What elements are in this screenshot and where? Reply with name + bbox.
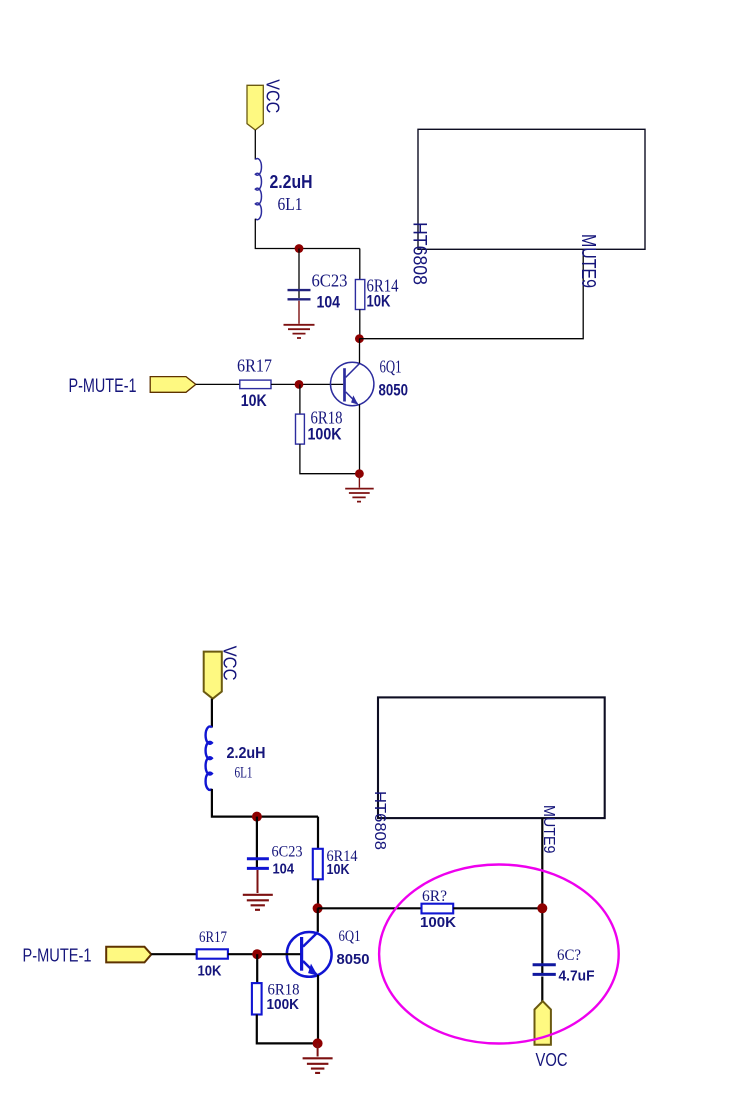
wire base node down to 6R18 xyxy=(256,954,258,983)
wire inductor to corner and across to 6R14 xyxy=(255,219,359,249)
IC HT6808 (box) xyxy=(378,697,605,818)
svg-text:MUTE9: MUTE9 xyxy=(577,234,599,288)
svg-text:6R18: 6R18 xyxy=(311,408,343,428)
svg-text:6R17: 6R17 xyxy=(237,356,272,376)
resistor 6R? xyxy=(422,904,454,914)
svg-text:10K: 10K xyxy=(327,861,350,878)
inductor 6L1 2.2uH xyxy=(206,726,212,789)
svg-text:2.2uH: 2.2uH xyxy=(270,172,313,192)
svg-text:6R17: 6R17 xyxy=(199,929,227,946)
wire node to ground (maroon) xyxy=(317,1043,319,1056)
wire MUTE9 pin down to cap xyxy=(541,818,543,973)
junction node (base) xyxy=(252,949,262,959)
svg-text:4.7uF: 4.7uF xyxy=(559,968,595,985)
svg-text:6R?: 6R? xyxy=(422,888,447,905)
svg-text:8050: 8050 xyxy=(379,382,409,400)
svg-text:6Q1: 6Q1 xyxy=(339,928,361,945)
IC HT6808 (box) xyxy=(418,129,645,249)
svg-text:6L1: 6L1 xyxy=(278,194,303,214)
ground (below 6Q1) xyxy=(303,1058,333,1073)
wire inductor to rail xyxy=(212,789,318,817)
svg-text:10K: 10K xyxy=(367,293,391,311)
capacitor 6C23 104 xyxy=(247,859,269,869)
transistor 6Q1 emitter arrow xyxy=(351,395,358,404)
junction node (emitter / ground) xyxy=(355,469,364,478)
wire collector up to node xyxy=(359,339,361,364)
junction node (rail / cap) xyxy=(252,812,262,822)
wire VCC flag to inductor xyxy=(254,130,256,160)
junction node (emitter / ground) xyxy=(313,1038,323,1048)
svg-text:100K: 100K xyxy=(267,996,300,1013)
resistor 6R14 xyxy=(355,280,364,310)
wire 6R? to MUTE9 node xyxy=(453,907,542,909)
svg-text:100K: 100K xyxy=(308,426,342,444)
svg-text:10K: 10K xyxy=(241,392,267,410)
svg-text:8050: 8050 xyxy=(337,951,370,968)
wire 6R18 to emitter node xyxy=(300,444,360,474)
wire 6R17 to base node xyxy=(228,953,300,955)
wire VCC flag to inductor xyxy=(211,699,213,728)
junction node (collector / 6R?) xyxy=(313,903,323,913)
svg-text:6C?: 6C? xyxy=(557,947,581,964)
capacitor 6C23 104 xyxy=(288,290,311,299)
transistor 6Q1 emitter arrow xyxy=(308,964,318,976)
wire flag to 6R17 xyxy=(151,953,196,955)
wire 6R14 to collector node xyxy=(359,310,361,339)
transistor 6Q1 base bar xyxy=(343,368,346,401)
junction node (MUTE9 / cap) xyxy=(537,903,547,913)
wire 6R18 to emitter node xyxy=(257,1015,318,1044)
power flag VCC (top circuit) xyxy=(247,85,263,130)
svg-text:6L1: 6L1 xyxy=(235,765,253,782)
junction node (VCC rail / cap) xyxy=(295,244,304,253)
capacitor 6C? 4.7uF xyxy=(533,965,556,975)
svg-text:VOC: VOC xyxy=(536,1050,568,1070)
ground (below 6C23) xyxy=(284,325,315,338)
transistor 6Q1 collector stroke xyxy=(346,363,360,377)
wire 6R14 to collector node xyxy=(317,879,319,908)
svg-text:HT6808: HT6808 xyxy=(409,222,430,285)
junction node (collector / MUTE9) xyxy=(355,334,364,343)
wire capacitor to ground (maroon) xyxy=(257,870,259,893)
svg-text:100K: 100K xyxy=(420,914,456,931)
wire base node down to 6R18 xyxy=(299,384,301,414)
ground (below 6C23) xyxy=(243,895,273,910)
wire node to ground (maroon) xyxy=(358,474,360,488)
resistor 6R17 xyxy=(197,949,228,958)
svg-text:VCC: VCC xyxy=(219,646,240,681)
resistor 6R14 xyxy=(313,849,323,880)
svg-text:104: 104 xyxy=(273,861,295,878)
transistor 6Q1 emitter stroke xyxy=(346,392,358,404)
resistor 6R18 xyxy=(252,983,262,1014)
svg-text:HT6808: HT6808 xyxy=(371,791,388,850)
transistor 6Q1 emitter stroke xyxy=(303,961,317,975)
svg-text:VCC: VCC xyxy=(263,79,284,113)
transistor 6Q1 collector stroke xyxy=(303,932,318,947)
wire emitter down to ground node xyxy=(359,404,361,473)
wire node to 6R? xyxy=(318,907,422,909)
transistor 6Q1 (circle) xyxy=(287,932,332,977)
wire node to MUTE9 pin xyxy=(359,249,583,338)
port flag P-MUTE-1 xyxy=(150,377,196,393)
resistor 6R17 xyxy=(240,380,271,389)
svg-text:6Q1: 6Q1 xyxy=(380,357,402,377)
junction node (base) xyxy=(295,380,304,389)
svg-text:6C23: 6C23 xyxy=(312,271,348,291)
wire 6R17 to base node xyxy=(271,383,343,385)
svg-text:6C23: 6C23 xyxy=(272,844,303,861)
transistor 6Q1 (circle) xyxy=(331,362,374,405)
inductor 6L1 2.2uH xyxy=(255,159,261,220)
wire flag to 6R17 xyxy=(196,383,240,385)
highlight ellipse (magenta) xyxy=(379,865,619,1044)
resistor 6R18 xyxy=(296,414,305,444)
wire node to capacitor xyxy=(298,249,300,299)
wire node to capacitor xyxy=(256,817,258,867)
transistor 6Q1 base bar xyxy=(300,937,303,971)
svg-text:2.2uH: 2.2uH xyxy=(227,745,266,762)
wire cap to VCC flag xyxy=(541,977,543,1003)
wire rail to 6R14 xyxy=(317,817,319,849)
svg-text:P-MUTE-1: P-MUTE-1 xyxy=(23,945,92,965)
wire capacitor to ground (maroon) xyxy=(298,301,300,324)
svg-text:P-MUTE-1: P-MUTE-1 xyxy=(69,376,137,397)
ground (below 6Q1) xyxy=(345,489,374,502)
svg-text:104: 104 xyxy=(317,294,341,312)
wire rail to 6R14 xyxy=(359,249,361,280)
power flag VCC (pointing up) xyxy=(535,1001,551,1045)
svg-text:10K: 10K xyxy=(198,963,222,980)
wire collector up to node xyxy=(317,908,319,932)
power flag VCC (bottom circuit) xyxy=(204,652,222,699)
port flag P-MUTE-1 xyxy=(106,947,151,963)
wire emitter down to ground node xyxy=(317,975,319,1044)
